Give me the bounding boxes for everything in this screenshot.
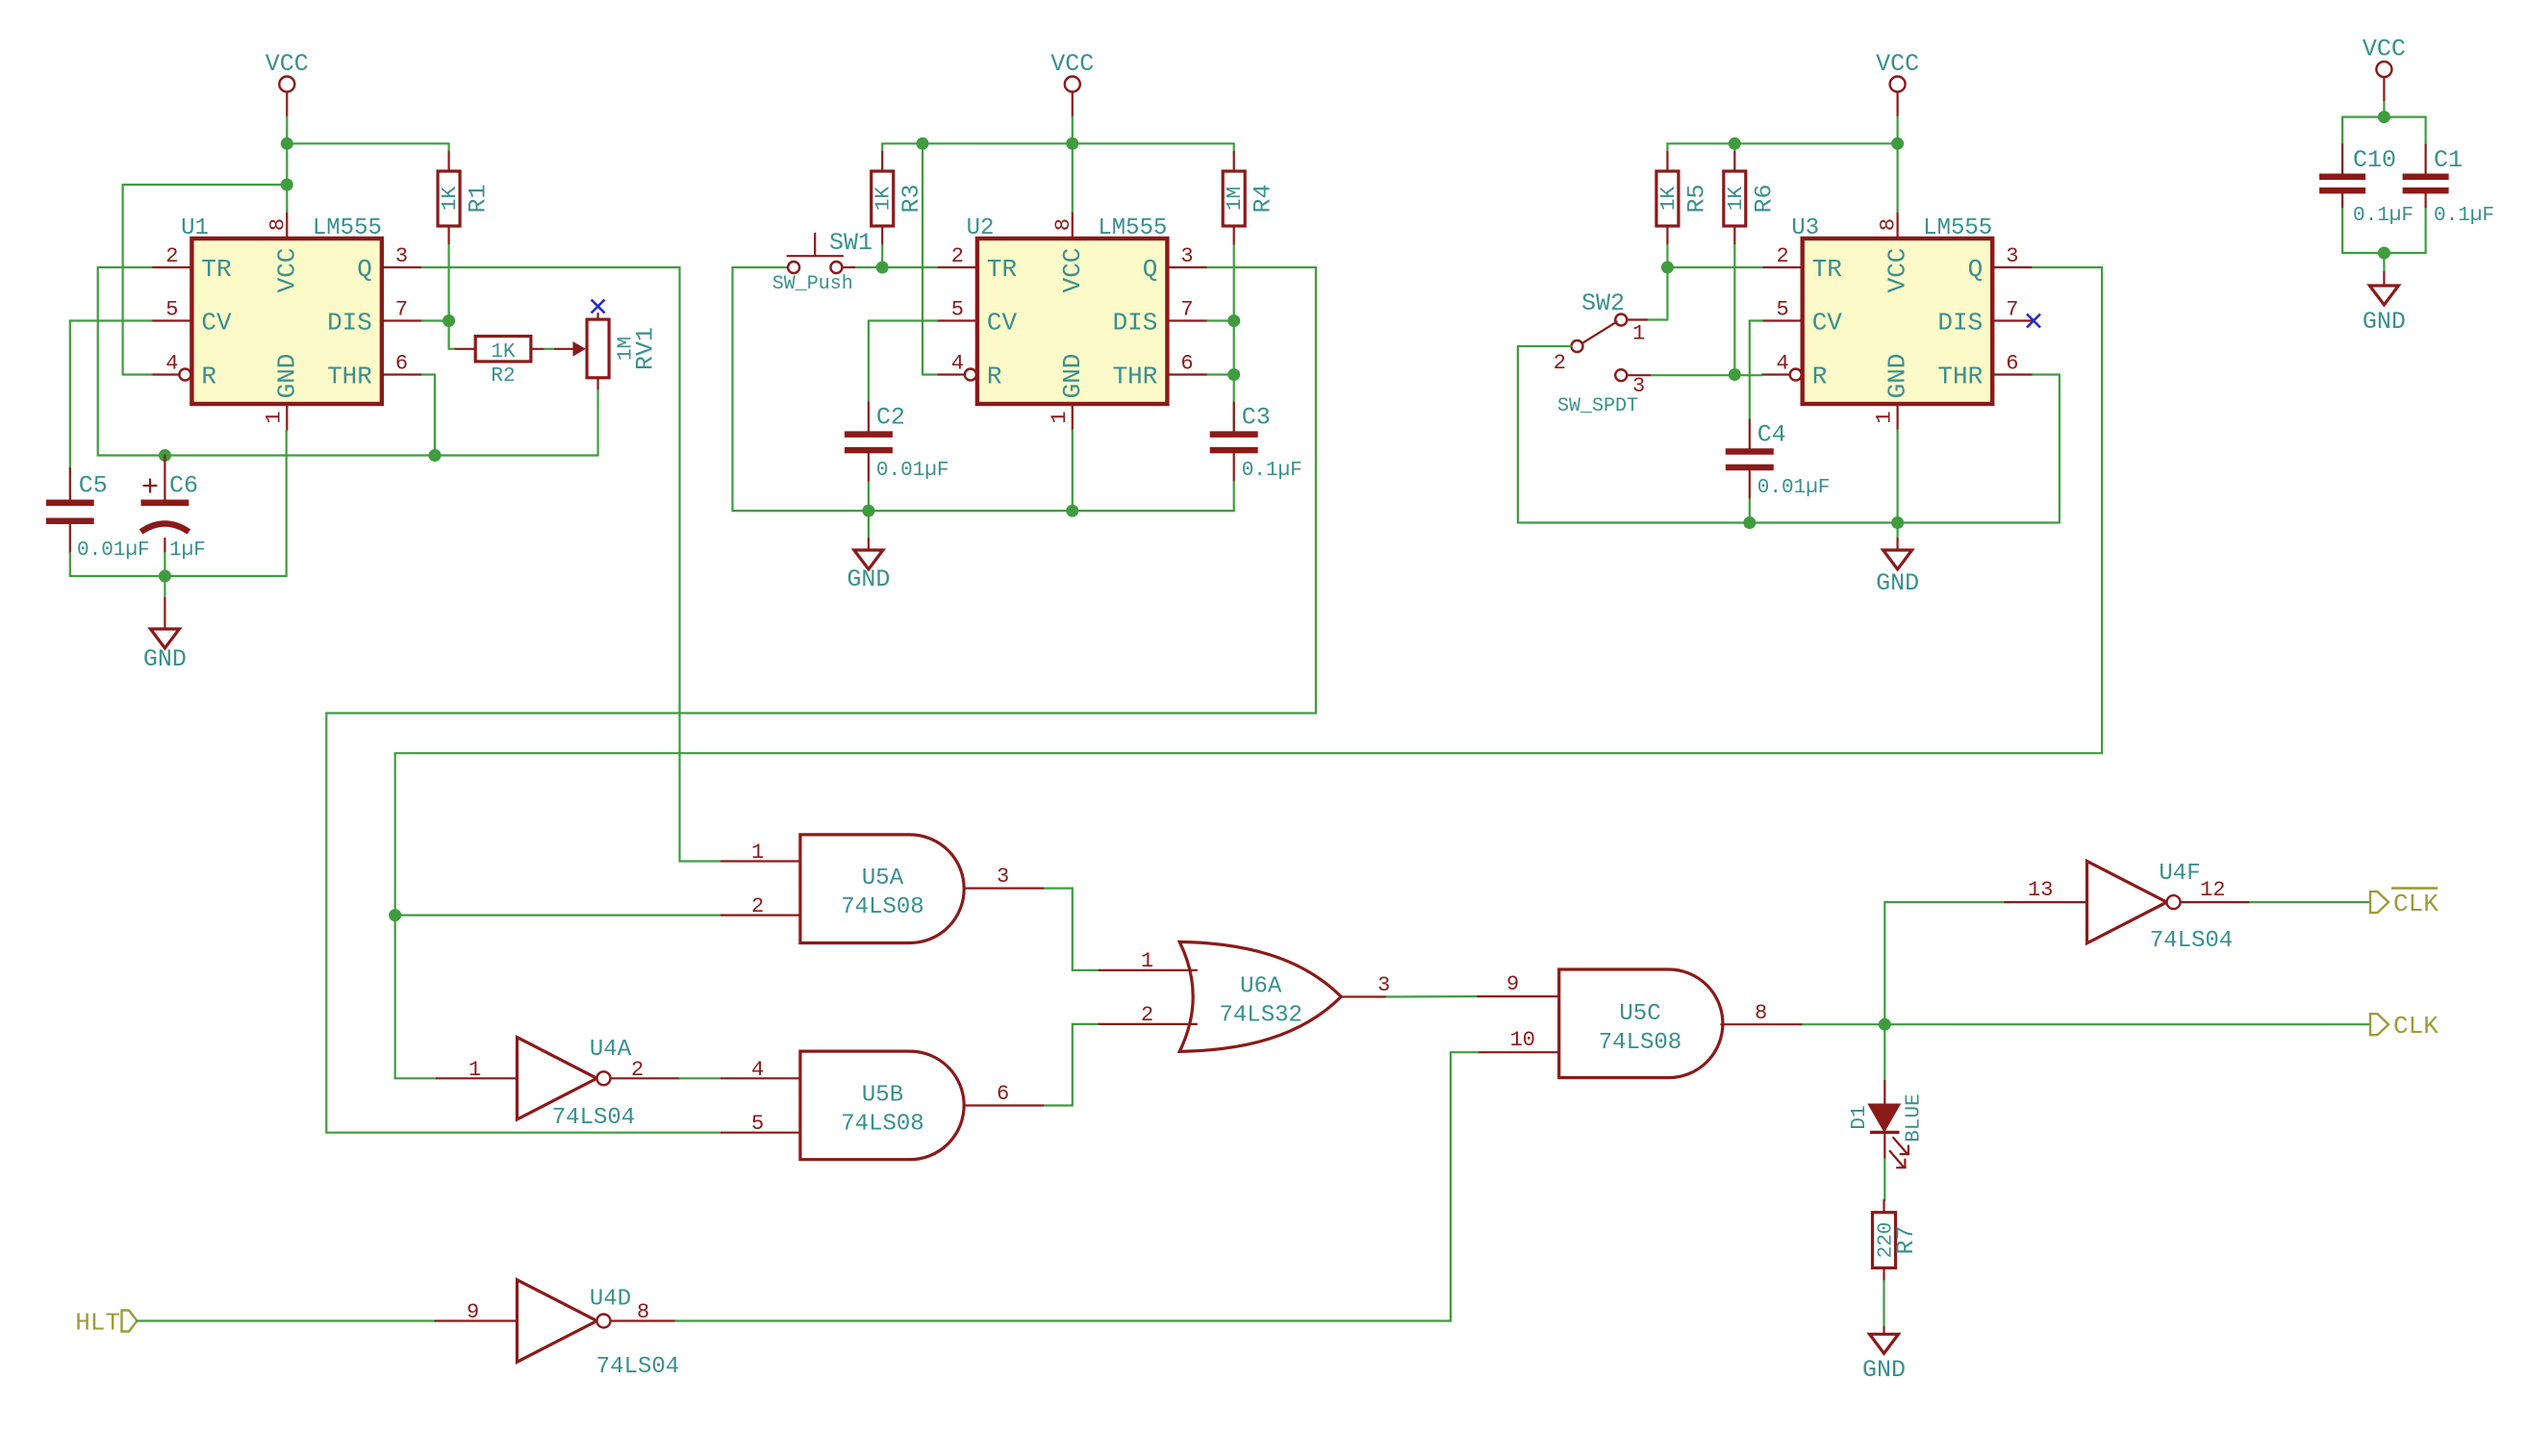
wire TR to bottom feedback rail [98, 267, 598, 456]
svg-text:CV: CV [1812, 309, 1843, 338]
svg-text:74LS32: 74LS32 [1219, 1003, 1302, 1029]
wire U1 Q to U5A pin1 [422, 267, 721, 862]
svg-text:1K: 1K [1726, 187, 1748, 212]
AND gate U5B 74LS08 [800, 1051, 964, 1160]
wire R6 top [1733, 143, 1735, 152]
junction rail / pin1 (U3) [1891, 516, 1904, 529]
resistor R1 1K [438, 152, 493, 245]
capacitor C5 0.01uF [46, 468, 150, 562]
svg-text:D1: D1 [1849, 1105, 1871, 1129]
svg-text:6: 6 [1180, 352, 1193, 376]
wire CV to C2 column (U2) [869, 319, 937, 321]
GND stub (U3) [1896, 539, 1898, 550]
wire VCC branch to reset (R) net [123, 184, 288, 186]
pin 2 stub U5A [721, 914, 800, 916]
wire CLK node up to U4F input [1884, 902, 2005, 1024]
svg-text:5: 5 [1776, 298, 1788, 322]
svg-text:1: 1 [1632, 322, 1645, 346]
svg-text:0.01µF: 0.01µF [1757, 477, 1831, 499]
svg-text:HLT: HLT [75, 1309, 120, 1338]
svg-text:LM555: LM555 [1098, 215, 1167, 241]
svg-text:4: 4 [1776, 352, 1788, 376]
svg-text:U5A: U5A [862, 866, 904, 891]
wire C2 bottom to rail [868, 482, 870, 511]
VCC pin stub (U2) [1072, 92, 1074, 117]
wire U4F out to CLKbar label [2250, 901, 2370, 903]
wire to GND symbol (U3) [1896, 523, 1898, 540]
capacitor C10 0.1uF [2319, 145, 2414, 228]
wire R3 top [881, 143, 883, 152]
switch SW1 SW_Push [733, 229, 873, 295]
svg-text:Q: Q [1143, 255, 1158, 284]
svg-text:GND: GND [1862, 1356, 1906, 1384]
capacitor C2 0.01uF [845, 403, 949, 483]
svg-text:5: 5 [751, 1112, 764, 1136]
wire SW1 to junction [856, 266, 882, 268]
svg-text:2: 2 [1554, 351, 1566, 375]
switch SW2 SW_SPDT [1554, 289, 1652, 417]
svg-text:C3: C3 [1242, 404, 1271, 432]
svg-text:LM555: LM555 [1923, 215, 1992, 241]
junction DIS / R1 / R2 [442, 314, 455, 327]
wire D1 to R7 [1883, 1159, 1885, 1200]
wire VCC rail R3 to R4 [882, 142, 1233, 144]
svg-text:VCC: VCC [1058, 248, 1087, 293]
svg-text:SW1: SW1 [829, 229, 872, 257]
junction rail / THR branch [429, 449, 442, 462]
svg-text:R4: R4 [1250, 184, 1277, 213]
junction VCC rail / pin8 column [281, 138, 293, 150]
svg-text:U5C: U5C [1619, 1001, 1660, 1027]
svg-text:R7: R7 [1892, 1225, 1920, 1254]
wire C3 bottom to rail [1233, 482, 1235, 511]
inverter U4A 74LS04 [518, 1038, 611, 1119]
svg-text:VCC: VCC [272, 248, 301, 293]
pin 6 output stub U5B [964, 1104, 1045, 1106]
svg-text:U4D: U4D [590, 1287, 631, 1313]
svg-text:2: 2 [1141, 1003, 1153, 1027]
wire CLK node to CLK label [1884, 1023, 2370, 1025]
pin 12 output stub U4F [2181, 901, 2251, 903]
svg-text:VCC: VCC [1876, 50, 1919, 78]
svg-text:TR: TR [987, 255, 1017, 284]
junction R3 / SW1 / TR [876, 262, 889, 274]
wire bottom rail (decoupling) [2342, 252, 2426, 254]
svg-text:U4F: U4F [2159, 861, 2200, 887]
wire R5 top [1666, 143, 1668, 152]
wire R7 to GND [1883, 1281, 1884, 1327]
svg-text:Q: Q [357, 255, 372, 284]
svg-text:1: 1 [751, 841, 764, 865]
global label HLT (halt input) [75, 1309, 137, 1338]
wire C6 bottom [164, 553, 165, 576]
svg-text:THR: THR [327, 363, 372, 391]
svg-text:1K: 1K [1658, 187, 1681, 212]
wire R6 bottom to R pin net [1733, 245, 1735, 375]
wire SW1 left down to ground rail (U2) [731, 267, 733, 511]
wire U3 Q to U4A input [395, 267, 2102, 1078]
global label CLK (clock output) [2370, 1012, 2439, 1041]
svg-text:0.01µF: 0.01µF [77, 540, 150, 562]
svg-text:R1: R1 [465, 184, 493, 213]
svg-text:1M: 1M [1225, 187, 1247, 211]
wire to GND symbol [164, 576, 165, 598]
wire CLK node down to D1 [1883, 1024, 1885, 1081]
svg-text:DIS: DIS [1937, 309, 1983, 338]
wire THR down to ground rail (U3) [2033, 375, 2060, 523]
wire VCC rail down to pin 8 [286, 143, 288, 212]
svg-text:1: 1 [262, 411, 286, 423]
svg-text:2: 2 [951, 244, 964, 268]
wire pin1 GND down to rail [286, 431, 288, 577]
svg-text:C1: C1 [2434, 146, 2463, 174]
IC U2 LM555 timer [937, 212, 1208, 431]
capacitor C4 0.01uF [1726, 420, 1831, 500]
svg-text:DIS: DIS [1113, 309, 1158, 338]
wire R4 top [1233, 143, 1235, 152]
svg-text:0.1µF: 0.1µF [1242, 460, 1302, 482]
wire branch to U5A pin2 [395, 914, 721, 916]
IC U1 LM555 timer [151, 212, 422, 431]
svg-text:VCC: VCC [265, 50, 309, 78]
junction THR / C3 (U2) [1227, 368, 1240, 381]
svg-text:0.01µF: 0.01µF [876, 460, 949, 482]
wire VCC to top rail (decoupling) [2383, 102, 2385, 117]
pin 5 stub U5B [721, 1132, 800, 1134]
wire C5 bottom [69, 553, 71, 576]
svg-text:9: 9 [1506, 972, 1519, 996]
wire rail to pin 8 (U2) [1072, 143, 1074, 212]
svg-text:74LS08: 74LS08 [841, 1112, 923, 1138]
ground symbol (U2 block) [847, 550, 890, 593]
wire VCC down to rail [286, 117, 288, 144]
svg-text:TR: TR [201, 255, 231, 284]
AND gate U5C 74LS08 [1559, 969, 1723, 1078]
svg-text:6: 6 [2006, 352, 2018, 376]
svg-text:3: 3 [1632, 374, 1645, 398]
svg-text:R: R [201, 363, 216, 391]
pin 3 output stub U6A [1341, 995, 1387, 997]
no-connect X on U3 DIS [2027, 314, 2040, 328]
wire rail to pin8 (U3) [1896, 143, 1898, 212]
svg-text:R: R [1812, 363, 1828, 391]
svg-text:1K: 1K [873, 187, 896, 212]
svg-text:1µF: 1µF [169, 540, 206, 562]
GND symbol pin stub [164, 598, 165, 629]
VCC pin stub (U3) [1896, 92, 1898, 117]
ground symbol (U3 block) [1876, 550, 1919, 597]
wire pin1 down to rail (U3) [1896, 431, 1898, 523]
wire junction to TR pin (U3) [1667, 266, 1761, 268]
svg-text:8: 8 [1877, 218, 1901, 231]
VCC pin stub of power symbol [286, 92, 288, 117]
svg-text:7: 7 [1180, 298, 1193, 322]
wire to GND (decoupling) [2383, 253, 2385, 272]
wire U4D out to U5C pin10 [676, 1052, 1479, 1320]
resistor R4 1M [1223, 152, 1277, 245]
svg-text:VCC: VCC [1050, 50, 1094, 78]
svg-text:THR: THR [1937, 363, 1983, 391]
svg-text:5: 5 [951, 298, 964, 322]
capacitor C6 1uF (polarized) [141, 456, 206, 563]
junction rail / C2 / GND (U2) [862, 505, 874, 517]
capacitor C1 0.1uF [2403, 145, 2494, 228]
wire U4A out to U5B pin4 [680, 1077, 721, 1079]
inverter U4D 74LS04 [518, 1280, 611, 1362]
svg-text:TR: TR [1812, 255, 1842, 284]
no-connect X on RV1 pin 1 [592, 300, 605, 314]
wire VCC rail to R1 [287, 142, 448, 144]
junction rail / C4 (U3) [1743, 516, 1756, 529]
svg-text:12: 12 [2200, 878, 2225, 902]
wire reset branch to R pin (U2) [923, 373, 937, 375]
svg-text:1: 1 [1048, 411, 1072, 423]
svg-text:3: 3 [2006, 244, 2018, 268]
svg-text:Q: Q [1968, 255, 1984, 284]
svg-text:3: 3 [1378, 973, 1390, 997]
capacitor C3 0.1uF [1210, 403, 1302, 483]
pin 10 stub U5C [1478, 1051, 1558, 1053]
wire R3 bottom to TR junction [881, 245, 883, 267]
junction VCC rail / pin8 (U2) [1066, 138, 1078, 150]
svg-text:74LS08: 74LS08 [1599, 1030, 1681, 1056]
svg-text:U6A: U6A [1240, 974, 1282, 1000]
svg-text:13: 13 [2028, 878, 2053, 902]
svg-text:10: 10 [1510, 1028, 1535, 1052]
wire RV1 bottom down [596, 390, 598, 456]
junction VCC rail / R6 (U3) [1729, 138, 1741, 150]
pin 2 stub U6A [1100, 1023, 1197, 1025]
wire C1 bottom [2425, 209, 2427, 253]
svg-text:SW2: SW2 [1581, 289, 1625, 317]
LED D1 BLUE [1849, 1081, 1926, 1167]
svg-text:3: 3 [997, 865, 1009, 889]
svg-text:1K: 1K [491, 341, 516, 364]
svg-text:R: R [987, 363, 1002, 391]
wire to GND symbol (U2) [868, 511, 870, 539]
svg-text:C4: C4 [1757, 421, 1786, 449]
wire U5C out to CLK node [1803, 1023, 1884, 1025]
pin 3 output stub U5A [964, 887, 1045, 889]
wire to C1 [2425, 117, 2427, 145]
svg-text:VCC: VCC [1883, 248, 1912, 293]
wire VCC down to rail (U2) [1072, 117, 1074, 144]
AND gate U5A 74LS08 [800, 835, 964, 943]
svg-text:LM555: LM555 [313, 215, 382, 241]
IC U3 LM555 timer [1762, 212, 2034, 431]
wire R1 top [448, 143, 450, 152]
svg-text:RV1: RV1 [632, 327, 660, 370]
svg-text:VCC: VCC [2363, 36, 2406, 63]
svg-text:BLUE: BLUE [1904, 1093, 1926, 1142]
wire VCC down to rail (U3) [1896, 117, 1898, 144]
svg-text:5: 5 [165, 298, 178, 322]
ground symbol (LED) [1862, 1334, 1906, 1384]
svg-text:1: 1 [1141, 949, 1153, 973]
svg-text:2: 2 [1776, 244, 1788, 268]
wire DIS to R1/R2 junction [422, 319, 449, 321]
wire C4 bottom to rail [1749, 499, 1751, 523]
wire top rail (decoupling) [2342, 115, 2426, 117]
svg-text:6: 6 [395, 352, 408, 376]
wire to C10 [2341, 117, 2343, 145]
pin 13 stub U4F [2005, 901, 2086, 903]
svg-text:SW_Push: SW_Push [772, 273, 853, 295]
svg-text:74LS04: 74LS04 [552, 1105, 635, 1131]
wire R5 bottom [1666, 245, 1668, 267]
svg-text:1K: 1K [440, 187, 462, 212]
svg-text:7: 7 [2006, 298, 2018, 322]
svg-text:2: 2 [751, 894, 764, 918]
junction VCC column / reset branch [281, 179, 293, 191]
svg-text:GND: GND [1058, 354, 1087, 399]
junction rail / pin1 (U2) [1066, 505, 1078, 517]
wire HLT to U4D input [138, 1319, 436, 1321]
GND stub (U2) [868, 539, 870, 550]
svg-text:CV: CV [987, 309, 1018, 338]
svg-text:C6: C6 [169, 472, 198, 500]
power VCC symbol (U2 block) [1050, 50, 1094, 92]
wire U2 Q to U5B pin5 [326, 267, 1316, 1133]
pin 9 stub U5C [1478, 995, 1558, 997]
GND stub (decoupling) [2383, 272, 2385, 286]
global label CLK-bar (inverted clock output) [2370, 889, 2439, 918]
svg-text:DIS: DIS [327, 309, 372, 338]
wire U6A out to U5C pin9 [1387, 995, 1479, 998]
junction R5 / TR / SW2 (U3) [1661, 262, 1674, 274]
svg-text:4: 4 [951, 352, 964, 376]
wire THR to C3 column (U2) [1207, 373, 1233, 375]
svg-text:0.1µF: 0.1µF [2353, 205, 2414, 227]
power VCC symbol (decoupling) [2363, 36, 2406, 78]
resistor R7 220 [1873, 1200, 1921, 1281]
svg-text:8: 8 [637, 1300, 649, 1324]
junction DIS / R4 / C3 (U2) [1227, 314, 1240, 327]
svg-text:U5B: U5B [862, 1083, 903, 1109]
wire U5A out to U6A pin1 [1045, 889, 1100, 970]
wire reset branch to R pin [123, 373, 152, 375]
wire CV to C4 column (U3) [1750, 319, 1762, 321]
wire ground rail [70, 575, 287, 577]
svg-text:9: 9 [467, 1300, 479, 1324]
wire R4 bottom to DIS [1233, 245, 1235, 321]
svg-text:C2: C2 [876, 404, 905, 432]
svg-text:1: 1 [468, 1058, 481, 1082]
wire R1 bottom to DIS junction [448, 245, 450, 321]
svg-text:8: 8 [1755, 1001, 1767, 1025]
VCC stub (decoupling) [2383, 77, 2385, 102]
junction ground rail / GND symbol [159, 570, 171, 583]
svg-text:CLK: CLK [2393, 890, 2439, 918]
resistor R3 1K [872, 152, 926, 245]
wire ground rail (U3) [1518, 521, 2060, 523]
junction rail / C6 top [159, 449, 171, 462]
wire down to C4 [1749, 321, 1751, 420]
wire C10 bottom [2341, 209, 2343, 253]
power VCC symbol (U1 block) [265, 50, 309, 92]
svg-text:2: 2 [165, 244, 178, 268]
wire R2 to RV1 wiper [544, 348, 555, 350]
junction VCC rail / pin8 (U3) [1891, 138, 1904, 150]
pin 8 output stub U5C [1721, 1023, 1803, 1025]
wire junction down to SW2 pin1 [1647, 267, 1667, 320]
ground symbol (decoupling) [2363, 286, 2406, 336]
wire junction down to R2 [449, 321, 456, 349]
pin 1 stub U4A [437, 1077, 518, 1079]
wire ground rail (U2) [733, 510, 1234, 512]
junction wire B / U5A pin2 branch [389, 909, 401, 921]
svg-text:GND: GND [2363, 308, 2406, 336]
resistor R5 1K [1656, 152, 1711, 245]
wire pin1 down to rail (U2) [1072, 431, 1074, 512]
svg-text:SW_SPDT: SW_SPDT [1557, 395, 1638, 417]
svg-text:3: 3 [1180, 244, 1193, 268]
svg-text:1: 1 [1873, 411, 1897, 423]
svg-text:GND: GND [1883, 354, 1912, 399]
wire DIS to C3 column (U2) [1207, 319, 1233, 321]
junction VCC rail / reset branch (U2) [917, 138, 929, 150]
pin 2 output stub U4A [611, 1077, 680, 1079]
svg-text:C10: C10 [2353, 146, 2396, 174]
svg-text:GND: GND [272, 354, 301, 399]
wire CV to C5 [70, 321, 152, 469]
svg-text:74LS08: 74LS08 [841, 894, 923, 920]
pin 8 output stub U4D [611, 1319, 676, 1321]
svg-text:74LS04: 74LS04 [596, 1354, 679, 1380]
svg-text:0.1µF: 0.1µF [2434, 205, 2494, 227]
svg-text:U2: U2 [967, 215, 995, 241]
OR gate U6A 74LS32 [1179, 941, 1341, 1051]
ground symbol (U1 block) [143, 629, 187, 673]
wire down to C2 [868, 321, 870, 403]
svg-text:R3: R3 [897, 184, 925, 213]
resistor R2 1K [455, 337, 544, 388]
svg-text:CLK: CLK [2393, 1012, 2439, 1041]
svg-text:4: 4 [751, 1058, 764, 1082]
svg-text:8: 8 [265, 218, 290, 231]
svg-text:CV: CV [201, 309, 232, 338]
svg-text:2: 2 [631, 1058, 644, 1082]
pin 1 stub U5A [721, 860, 800, 862]
power VCC symbol (U3 block) [1876, 50, 1919, 92]
wire junction to TR pin (U2) [882, 266, 937, 268]
svg-text:GND: GND [143, 645, 187, 673]
wire VCC rail R5 to VCC col (U3) [1667, 142, 1897, 144]
wire THR down to rail [422, 375, 435, 456]
svg-text:7: 7 [395, 298, 408, 322]
junction bottom rail (decoupling) [2378, 247, 2390, 260]
wire reset branch down (U2) [922, 143, 923, 374]
wire SW2 pin3 to R pin (U3) [1652, 374, 1762, 376]
pin 1 stub U6A [1100, 969, 1197, 971]
svg-text:U4A: U4A [590, 1037, 632, 1063]
junction R6 / SW2 pin3 / R pin (U3) [1729, 368, 1741, 381]
svg-text:R2: R2 [491, 365, 515, 388]
inverter U4F 74LS04 [2087, 861, 2181, 942]
pin 9 stub U4D [436, 1319, 518, 1321]
svg-text:GND: GND [847, 565, 890, 593]
wire reset branch down [121, 185, 123, 375]
svg-text:R6: R6 [1750, 184, 1778, 213]
resistor R6 1K [1724, 152, 1779, 245]
svg-text:U1: U1 [181, 215, 209, 241]
svg-text:6: 6 [997, 1082, 1009, 1106]
svg-text:R5: R5 [1682, 184, 1710, 213]
junction CLK node [1879, 1018, 1891, 1031]
wire down to C3 [1233, 321, 1235, 432]
svg-text:3: 3 [395, 244, 408, 268]
svg-text:8: 8 [1051, 218, 1075, 231]
